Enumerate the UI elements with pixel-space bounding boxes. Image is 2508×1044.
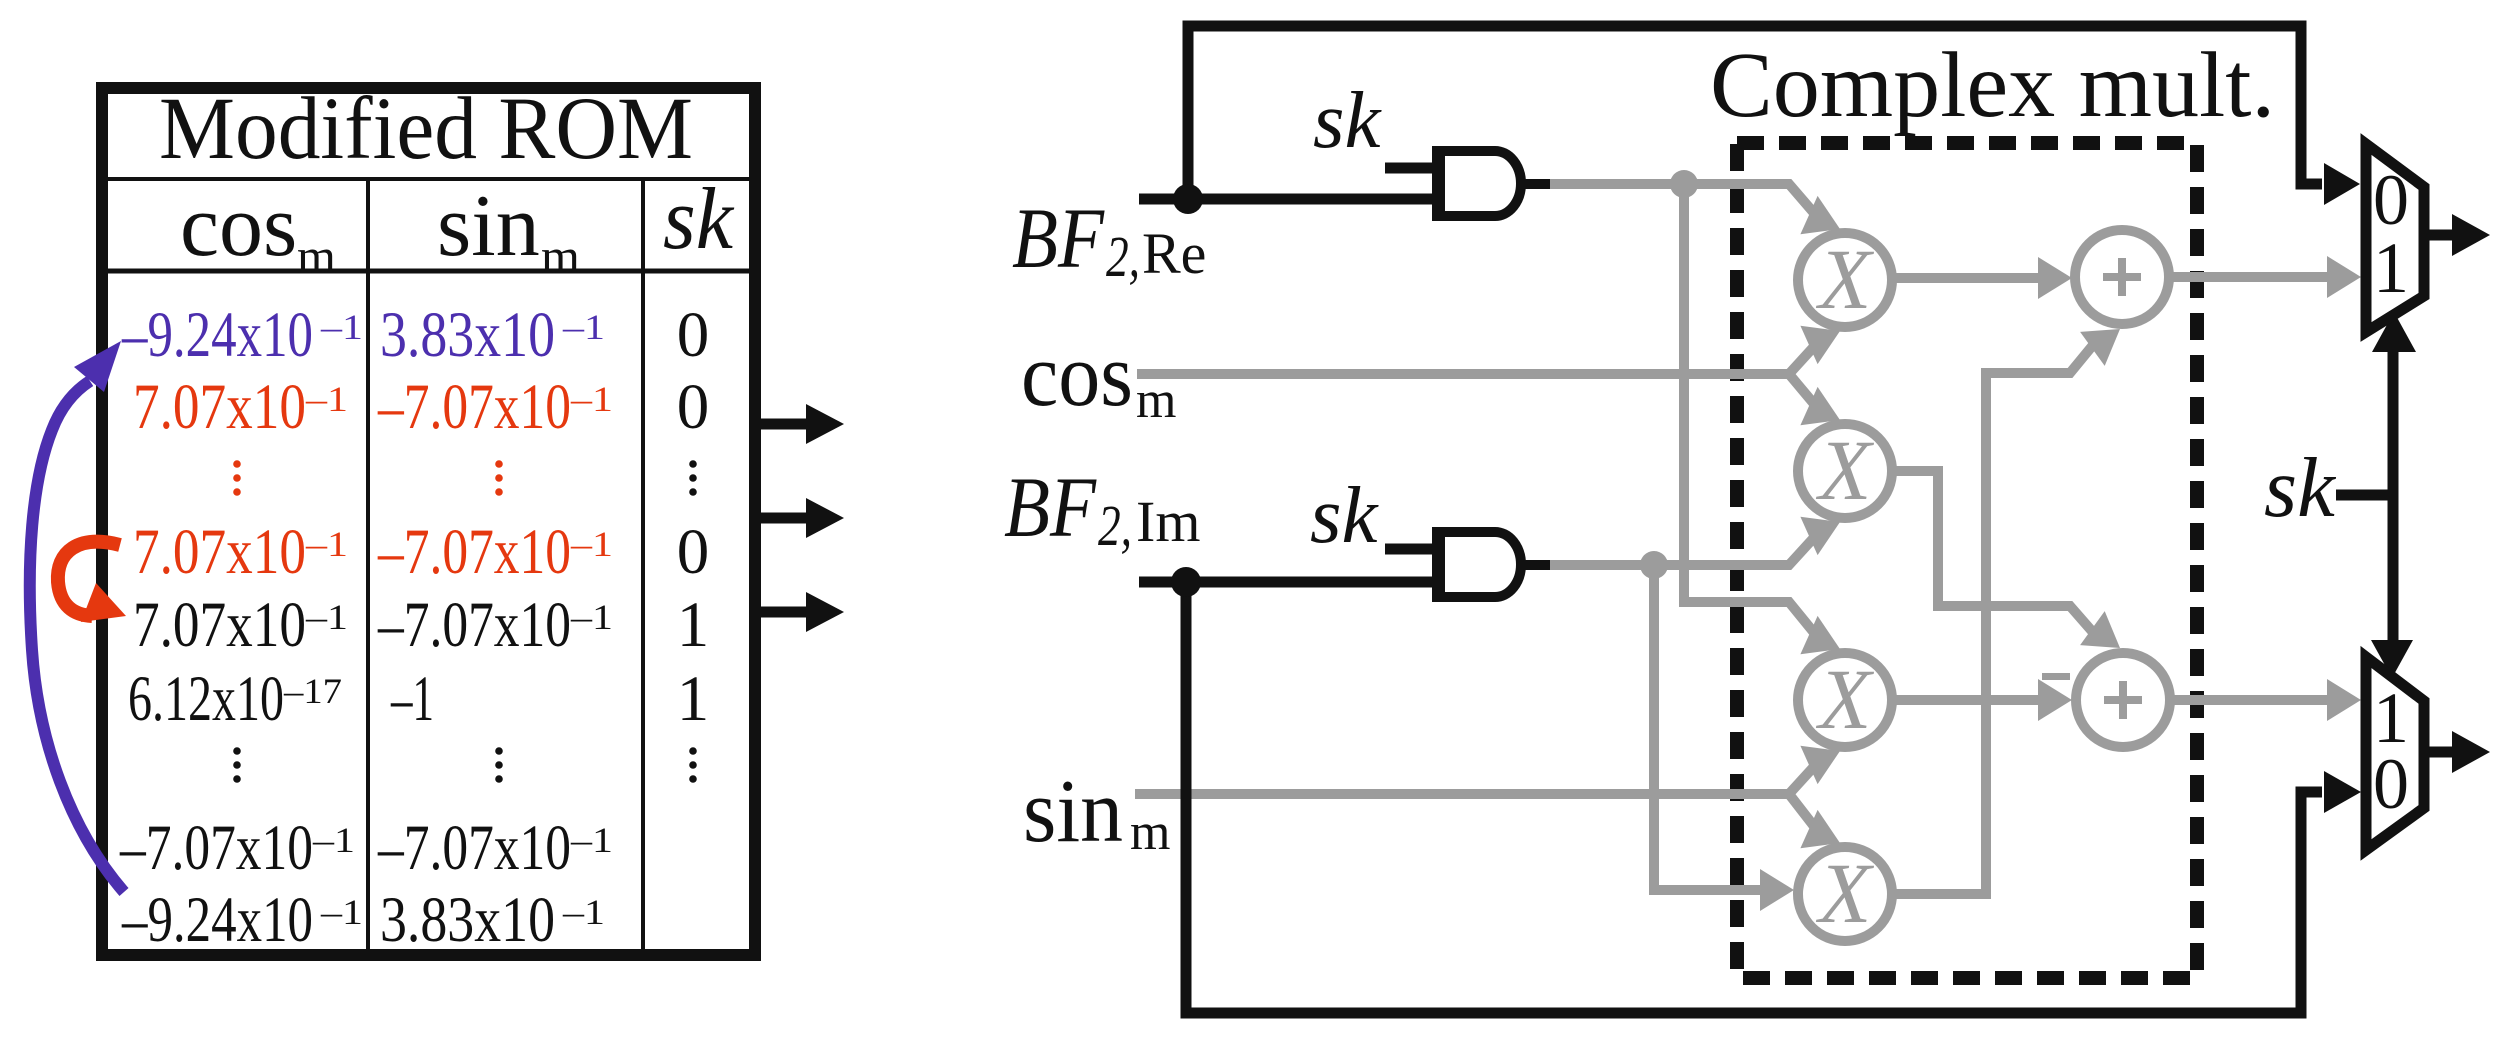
- svg-text:m: m: [541, 228, 580, 284]
- multiplier M2: [1798, 424, 1892, 518]
- multiplier M1: [1798, 233, 1892, 327]
- svg-text:–1: –1: [312, 820, 355, 860]
- svg-text:X: X: [1816, 651, 1875, 747]
- table row 2 values (red): [133, 371, 613, 443]
- arrowhead sk down into MUX2: [2371, 640, 2413, 678]
- svg-text:3.83x10: 3.83x10: [380, 884, 555, 956]
- table output arrow 2: [755, 513, 807, 524]
- wire sin_m branch down to M4 upper input: [1789, 794, 1820, 834]
- AND gate U1: [1444, 151, 1521, 216]
- svg-text:–7.07x10: –7.07x10: [119, 812, 313, 884]
- svg-text:m: m: [297, 228, 336, 284]
- wire cos_m horizontal: [1137, 369, 1789, 379]
- arrowhead M3 output into A2: [2038, 679, 2072, 721]
- arrowhead A2 output into MUX2: [2327, 679, 2361, 721]
- MUX2 body: [2366, 657, 2424, 850]
- table row 1 values (purple): [121, 299, 605, 371]
- table row 8 values: [119, 812, 613, 884]
- svg-text:BF: BF: [1004, 459, 1097, 555]
- svg-text:Complex mult.: Complex mult.: [1710, 34, 2275, 137]
- svg-text:Re: Re: [1142, 221, 1206, 286]
- svg-text:–1: –1: [320, 892, 363, 932]
- svg-text:6.12x10: 6.12x10: [128, 663, 284, 735]
- svg-text:sk: sk: [2264, 441, 2336, 535]
- adder A2: [2076, 653, 2170, 747]
- svg-text:–7.07x10: –7.07x10: [377, 812, 571, 884]
- arrowhead into M3 upper: [1800, 616, 1840, 654]
- svg-text:sin: sin: [437, 178, 540, 275]
- label: BF2,Im: [1004, 459, 1200, 558]
- arrowhead A1 output into MUX1: [2327, 256, 2361, 298]
- arrowhead M4 branch into A1 lower: [2080, 329, 2120, 366]
- table output arrow 1: [755, 404, 844, 632]
- wire M1 output to adder A1: [1893, 273, 2044, 283]
- wire sk select vertical between muxes: [2388, 352, 2399, 641]
- svg-text:7.07x10: 7.07x10: [133, 371, 306, 443]
- wire junction AND1 down to M3 upper input: [1684, 184, 1820, 640]
- wire adder A2 output to MUX2 input 1: [2170, 695, 2333, 705]
- table data column sk values: [677, 299, 710, 735]
- arrowhead into M2 upper: [1800, 387, 1840, 425]
- wire sin_m horizontal: [1135, 789, 1789, 799]
- svg-text:X: X: [1816, 422, 1875, 518]
- wire cos_m branch up to M1 lower input: [1789, 340, 1820, 374]
- ROM table outer border: [102, 88, 755, 955]
- svg-text:m: m: [1136, 372, 1176, 429]
- wire junction AND2 down to M4 lower input: [1654, 565, 1768, 890]
- svg-text:sk: sk: [1313, 75, 1383, 165]
- svg-text:0: 0: [677, 371, 710, 443]
- arrowhead M1 output into A1: [2038, 257, 2072, 299]
- table row 3 dots red: [233, 460, 503, 496]
- adder A1: [2075, 230, 2169, 324]
- svg-text:0: 0: [2373, 744, 2409, 824]
- wire sin_m branch up to M3 lower input: [1789, 760, 1820, 794]
- table header separator line: [108, 269, 749, 274]
- svg-text:–1: –1: [305, 379, 348, 419]
- svg-text:–1: –1: [570, 597, 613, 637]
- svg-text:1: 1: [2373, 228, 2409, 308]
- multiplier M4: [1798, 847, 1892, 941]
- wire AND1 output to junction and M1 upper input: [1548, 184, 1820, 220]
- svg-text:–7.07x10: –7.07x10: [377, 589, 571, 661]
- junction dot AND1 output: [1670, 170, 1698, 198]
- arrowhead MUX1 output: [2452, 214, 2490, 256]
- purple swap annotation arrow: [30, 381, 124, 892]
- wire top feedback: node BF2,Re up and across to MUX1 input 0: [1188, 26, 2322, 199]
- wire sk1 stub into AND1: [1385, 163, 1436, 174]
- dashed box: Complex mult. boundary: [1737, 143, 2197, 978]
- svg-text:–9.24x10: –9.24x10: [121, 884, 313, 956]
- arrowhead into M2 lower: [1800, 517, 1840, 555]
- svg-text:1: 1: [677, 663, 710, 735]
- svg-text:0: 0: [677, 516, 710, 588]
- table row 5 values: [133, 589, 613, 661]
- svg-text:1: 1: [677, 589, 710, 661]
- wire MUX1 output: [2429, 230, 2453, 241]
- svg-text:Im: Im: [1136, 489, 1200, 554]
- svg-text:7.07x10: 7.07x10: [133, 516, 306, 588]
- svg-text:7.07x10: 7.07x10: [133, 589, 306, 661]
- MUX1 body: [2366, 144, 2424, 332]
- table output arrow 3: [755, 607, 807, 618]
- arrowhead MUX2 output: [2452, 731, 2490, 773]
- svg-text:–1: –1: [320, 307, 363, 347]
- svg-text:0: 0: [677, 299, 710, 371]
- svg-text:sin: sin: [1023, 762, 1123, 861]
- red swap annotation arrow: [58, 542, 120, 616]
- node dot BF2,Re: [1173, 184, 1203, 214]
- wire sk select stub: [2336, 490, 2393, 501]
- svg-text:2,: 2,: [1098, 493, 1132, 558]
- arrowhead sk up into MUX1: [2372, 312, 2416, 352]
- svg-text:sk: sk: [663, 171, 735, 268]
- svg-text:Modified ROM: Modified ROM: [159, 80, 693, 178]
- arrowhead into M4 upper: [1800, 810, 1840, 848]
- svg-text:sk: sk: [1310, 470, 1380, 560]
- svg-text:BF: BF: [1012, 190, 1105, 286]
- table title separator line: [108, 177, 749, 181]
- svg-text:m: m: [1130, 804, 1170, 861]
- column separator sin/sk: [641, 179, 645, 949]
- svg-text:–9.24x10: –9.24x10: [121, 299, 313, 371]
- wire M2 output down and into adder A2 upper input: [1893, 471, 2098, 638]
- arrowhead into MUX2 input 0: [2324, 771, 2361, 813]
- wire BF2,Re input: [1139, 194, 1436, 205]
- wire AND2 output to junction and M2 lower input: [1548, 531, 1820, 565]
- wire bottom feedback: node BF2,Im down and across to MUX2 input 0: [1186, 582, 2322, 1013]
- svg-text:X: X: [1816, 231, 1875, 327]
- svg-text:–1: –1: [562, 892, 605, 932]
- svg-text:–1: –1: [305, 524, 348, 564]
- wire adder A1 output to MUX1 input 1: [2168, 272, 2333, 282]
- wire cos_m branch down to M2 upper input: [1789, 374, 1820, 411]
- arrowhead into M4 lower: [1760, 869, 1794, 911]
- svg-text:–1: –1: [562, 307, 605, 347]
- svg-text:–1: –1: [570, 524, 613, 564]
- AND gate U2: [1444, 532, 1521, 597]
- arrowhead into M1 upper: [1800, 196, 1840, 234]
- svg-text:–1: –1: [570, 379, 613, 419]
- label: BF2,Re: [1012, 190, 1206, 289]
- svg-text:X: X: [1816, 845, 1875, 941]
- junction dot AND2 output: [1640, 551, 1668, 579]
- table row 7 dots: [233, 747, 697, 783]
- arrowhead into MUX1 input 0: [2324, 163, 2360, 205]
- wire M4 output up and into adder A1 lower input: [1893, 339, 2098, 894]
- arrowhead into M1 lower: [1800, 326, 1840, 364]
- multiplier X glyphs: [1816, 231, 1875, 941]
- svg-text:–7.07x10: –7.07x10: [377, 516, 571, 588]
- svg-text:2,: 2,: [1106, 224, 1140, 289]
- svg-text:–7.07x10: –7.07x10: [377, 371, 571, 443]
- svg-text:–1: –1: [305, 597, 348, 637]
- wire M3 output to adder A2: [1893, 695, 2044, 705]
- node dot BF2,Im: [1171, 567, 1201, 597]
- svg-text:–1: –1: [390, 663, 434, 735]
- wire MUX2 output: [2429, 747, 2453, 758]
- svg-text:cos: cos: [180, 178, 297, 275]
- column separator cos/sin: [366, 179, 370, 949]
- minus sign at A2 input: [2042, 673, 2070, 680]
- svg-text:3.83x10: 3.83x10: [380, 299, 555, 371]
- wire BF2,Im input: [1139, 577, 1436, 588]
- svg-text:–17: –17: [283, 671, 342, 711]
- table row 6 values: [128, 663, 434, 735]
- multiplier M3: [1798, 653, 1892, 747]
- svg-text:cos: cos: [1021, 326, 1133, 425]
- table row 9 values: [121, 884, 605, 956]
- table row 4 values (red): [133, 516, 613, 588]
- svg-text:–1: –1: [570, 820, 613, 860]
- arrowhead M2 branch into A2 upper: [2080, 611, 2120, 648]
- wire sk2 stub into AND2: [1385, 544, 1436, 555]
- arrowhead into M3 lower: [1800, 746, 1840, 784]
